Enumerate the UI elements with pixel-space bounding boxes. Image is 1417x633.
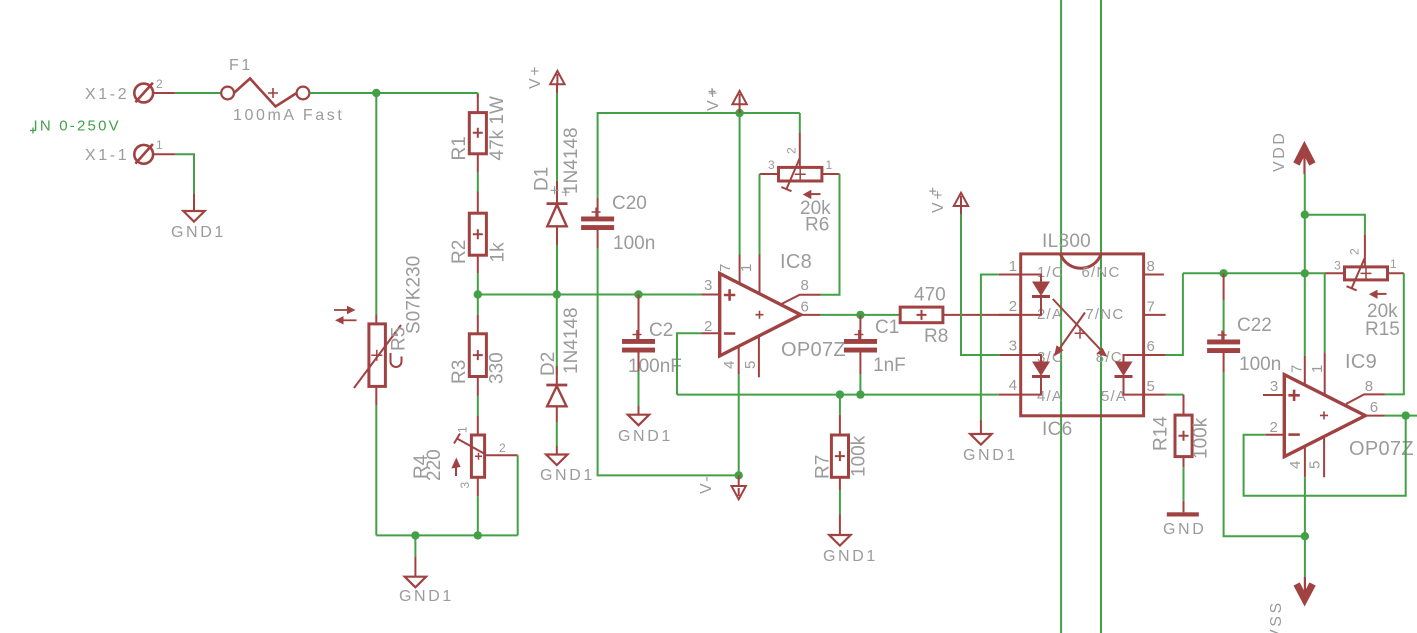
svg-text:1: 1 bbox=[156, 138, 163, 152]
svg-text:100n: 100n bbox=[613, 233, 655, 254]
wire: R15 pin3 down to IC9 pin1 bbox=[1324, 273, 1326, 352]
ground GND1 (under X1-1) bbox=[171, 194, 226, 241]
wire: bus down to R3 bbox=[477, 295, 479, 315]
IL300 pin 1 bbox=[999, 274, 1021, 276]
wire: IL300 pin5 to R14 top bbox=[1166, 394, 1184, 396]
svg-text:5: 5 bbox=[1147, 378, 1157, 395]
svg-text:R1: R1 bbox=[449, 136, 470, 160]
IL300 gate labels bbox=[1037, 264, 1127, 405]
svg-text:3: 3 bbox=[1270, 378, 1280, 395]
junction: top rail / R5 branch bbox=[372, 89, 380, 97]
svg-text:3: 3 bbox=[458, 481, 472, 488]
wire: R14 to GND bbox=[1183, 467, 1185, 501]
ground GND1 (LED cathode) bbox=[963, 420, 1018, 464]
svg-text:GND1: GND1 bbox=[399, 588, 454, 605]
svg-text:1: 1 bbox=[456, 426, 470, 433]
svg-text:6: 6 bbox=[1370, 399, 1380, 416]
net label IN 0-250V bbox=[30, 118, 121, 135]
svg-text:6/NC: 6/NC bbox=[1082, 264, 1121, 281]
svg-text:C20: C20 bbox=[612, 193, 647, 214]
wire: R6 pin3 down to IC8 pin1 bbox=[759, 174, 761, 255]
junction: rail at C22 bbox=[1219, 269, 1227, 277]
svg-text:V+: V+ bbox=[705, 86, 722, 111]
wire: X1-1 down to GND1 bbox=[175, 154, 194, 193]
wire: feedback loop to IC9 -input bbox=[1244, 416, 1406, 496]
svg-text:4: 4 bbox=[1287, 459, 1304, 469]
wire: D2 to GND1 bbox=[556, 422, 558, 446]
svg-text:IC6: IC6 bbox=[1042, 419, 1072, 440]
wire: bus down to D2 bbox=[556, 295, 558, 375]
wire: VSS node down to VSS symbol bbox=[1304, 536, 1306, 577]
svg-text:2: 2 bbox=[1348, 248, 1362, 255]
svg-text:5: 5 bbox=[1307, 459, 1324, 469]
wire: D1 to bus bbox=[556, 245, 558, 295]
svg-text:GND1: GND1 bbox=[823, 548, 878, 565]
wire: C20 top rail (V+ rail to IC8) bbox=[598, 113, 800, 198]
IL300 pin 8 bbox=[1144, 274, 1164, 276]
IL300 pin 4 bbox=[999, 394, 1021, 396]
IL300 pin 6 bbox=[1144, 354, 1166, 356]
ground GND1 (bottom left) bbox=[399, 557, 454, 605]
svg-text:1nF: 1nF bbox=[873, 355, 906, 376]
terminal X1-1 bbox=[85, 138, 175, 164]
wire: X1-2 to fuse F1 bbox=[175, 92, 221, 94]
svg-text:7: 7 bbox=[1147, 299, 1157, 316]
wire: top rail corner down to R1 bbox=[477, 93, 479, 97]
junction: output at C1 bbox=[856, 311, 864, 319]
supply V+ (IL300 pin3) bbox=[929, 188, 968, 214]
svg-text:6: 6 bbox=[801, 299, 811, 316]
junction: low rail at C1 bbox=[856, 390, 864, 398]
diode D1 1N4148 bbox=[532, 127, 583, 245]
supply V- (below IC8) bbox=[698, 474, 746, 500]
wire: IC8 output to R8 bbox=[821, 314, 901, 316]
wire: R7 to GND1 bbox=[839, 490, 841, 514]
trimmer R15 20k bbox=[1325, 234, 1404, 340]
svg-text:8: 8 bbox=[1365, 378, 1375, 395]
junction: bus at C2 bbox=[634, 290, 642, 298]
supply V+ (IC8 pin 7) bbox=[705, 86, 747, 113]
svg-text:VSS: VSS bbox=[1268, 600, 1285, 633]
capacitor C1 1nF bbox=[844, 315, 906, 376]
svg-text:5: 5 bbox=[742, 359, 759, 369]
svg-text:R2: R2 bbox=[449, 240, 470, 264]
wire: IC9 pin4 down to VSS node bbox=[1304, 477, 1306, 536]
svg-text:100n: 100n bbox=[1239, 354, 1281, 375]
wire: rail down to IC9 pin7 bbox=[1304, 273, 1306, 355]
resistor R3 330 bbox=[449, 315, 508, 396]
svg-text:220: 220 bbox=[424, 449, 445, 481]
svg-text:100k: 100k bbox=[849, 435, 870, 477]
svg-text:C1: C1 bbox=[875, 317, 899, 338]
svg-text:1N4148: 1N4148 bbox=[561, 307, 582, 374]
IL300 pin 5 bbox=[1144, 394, 1166, 396]
ground GND1 (under C2) bbox=[618, 406, 673, 445]
junction: VSS node bbox=[1301, 532, 1309, 540]
svg-text:X1-2: X1-2 bbox=[85, 86, 129, 103]
svg-text:IC9: IC9 bbox=[1345, 351, 1377, 373]
svg-text:7/NC: 7/NC bbox=[1085, 306, 1124, 323]
junction: bus at R2/R3 bbox=[474, 290, 482, 298]
svg-text:2: 2 bbox=[785, 147, 799, 154]
wire: R5 branch vertical bbox=[375, 93, 377, 315]
svg-text:2: 2 bbox=[704, 318, 714, 335]
svg-text:1: 1 bbox=[1009, 258, 1019, 275]
svg-text:GND1: GND1 bbox=[618, 428, 673, 445]
wire: IC8 -input loop bbox=[677, 333, 701, 394]
IL300 internal photodiode right bbox=[1115, 355, 1144, 395]
junction: bottom rail R4 pin3 bbox=[474, 531, 482, 539]
svg-text:VDD: VDD bbox=[1271, 130, 1288, 172]
svg-text:1N4148: 1N4148 bbox=[561, 127, 582, 194]
svg-text:R15: R15 bbox=[1365, 319, 1400, 340]
wire: long vertical net crossing schematic left bbox=[1060, 0, 1062, 633]
IL300 light arrow to left photodiode bbox=[1054, 313, 1085, 357]
IL300 pin numbers bbox=[1009, 258, 1156, 395]
junction: rail at VDD stem bbox=[1301, 269, 1309, 277]
wire: VDD branch to R15 pin2 bbox=[1305, 215, 1365, 235]
fuse F1 100mA Fast bbox=[221, 57, 344, 124]
svg-text:100nF: 100nF bbox=[628, 356, 682, 377]
varistor R5 S07K230 bbox=[334, 256, 425, 406]
svg-text:4: 4 bbox=[1009, 377, 1019, 394]
svg-text:8: 8 bbox=[801, 277, 811, 294]
ground GND (plain) bbox=[1163, 501, 1206, 538]
capacitor C22 100n bbox=[1207, 273, 1281, 375]
svg-text:2: 2 bbox=[499, 441, 506, 455]
trimmer R4 220 bbox=[411, 416, 518, 496]
supply VDD bbox=[1271, 130, 1312, 174]
svg-text:8: 8 bbox=[1147, 258, 1157, 275]
svg-text:3: 3 bbox=[1009, 338, 1019, 355]
svg-text:IL300: IL300 bbox=[1042, 231, 1091, 252]
supply VSS bbox=[1268, 577, 1313, 633]
svg-text:4: 4 bbox=[721, 359, 738, 369]
IL300 internal LED bbox=[1021, 275, 1050, 315]
svg-text:D1: D1 bbox=[532, 167, 553, 191]
wire: R3 to R4 bbox=[477, 396, 479, 417]
ground GND1 (under R7) bbox=[823, 514, 878, 565]
svg-text:2: 2 bbox=[1269, 419, 1279, 436]
supply V+ (above D1) bbox=[527, 64, 565, 94]
junction: V- node at IC8 pin4 bbox=[735, 471, 743, 479]
svg-text:F1: F1 bbox=[229, 57, 253, 74]
wire: secondary rail (pin6/C22/VDD/R15) bbox=[1183, 272, 1325, 274]
svg-text:2: 2 bbox=[1009, 298, 1019, 315]
resistor R1 47k 1W bbox=[449, 94, 508, 173]
svg-text:7: 7 bbox=[1289, 363, 1306, 373]
svg-text:47k 1W: 47k 1W bbox=[487, 96, 508, 160]
svg-text:OP07Z: OP07Z bbox=[781, 339, 846, 361]
optocoupler IC6 IL300 bbox=[1021, 231, 1144, 440]
resistor R7 100k bbox=[813, 395, 870, 490]
svg-text:3: 3 bbox=[704, 277, 714, 294]
svg-text:X1-1: X1-1 bbox=[85, 147, 129, 164]
wire: R4 pin3 to bottom rail bbox=[477, 496, 479, 535]
svg-text:C22: C22 bbox=[1237, 315, 1272, 336]
svg-text:R3: R3 bbox=[449, 360, 470, 384]
svg-text:IN 0-250V: IN 0-250V bbox=[34, 118, 121, 135]
capacitor C2 100nF bbox=[622, 295, 682, 378]
svg-text:GND1: GND1 bbox=[963, 447, 1018, 464]
wire: V+ junction down to IC8 pin7 bbox=[739, 113, 741, 255]
wire: V+ down to IL300 pin3 bbox=[961, 214, 1000, 355]
trimmer R6 20k bbox=[760, 133, 840, 236]
wire: R2 to node bus bbox=[477, 273, 479, 295]
ground GND1 (under D2) bbox=[540, 446, 595, 484]
junction: V+ at IC8 pin7 bbox=[735, 109, 743, 117]
svg-text:D2: D2 bbox=[538, 352, 559, 376]
svg-text:7: 7 bbox=[717, 262, 734, 272]
wire: VDD stem down to rail bbox=[1304, 174, 1306, 273]
svg-text:1: 1 bbox=[826, 158, 833, 172]
svg-text:IC8: IC8 bbox=[780, 251, 812, 273]
svg-text:GND1: GND1 bbox=[171, 224, 226, 241]
op-amp IC8 OP07Z bbox=[701, 251, 846, 377]
svg-text:V-: V- bbox=[698, 474, 715, 494]
svg-text:6: 6 bbox=[1147, 338, 1157, 355]
svg-text:100mA Fast: 100mA Fast bbox=[233, 107, 344, 124]
wire: R5 down to bottom rail bbox=[375, 405, 377, 535]
op-amp IC9 OP07Z bbox=[1263, 351, 1414, 477]
svg-text:GND1: GND1 bbox=[540, 467, 595, 484]
svg-text:R14: R14 bbox=[1151, 416, 1172, 451]
wire: C1 bottom to low rail bbox=[859, 374, 861, 394]
svg-text:S07K230: S07K230 bbox=[404, 256, 425, 334]
wire: IL300 pin6 up to secondary rail bbox=[1166, 273, 1183, 355]
wire: node bus (divider tap) to IC8 +input bbox=[478, 294, 701, 296]
svg-text:R7: R7 bbox=[813, 455, 834, 479]
svg-text:1: 1 bbox=[738, 262, 755, 272]
svg-text:470: 470 bbox=[914, 285, 946, 306]
diode D2 1N4148 bbox=[538, 307, 582, 422]
wire: fuse to node A (top rail) bbox=[309, 92, 477, 94]
wire: R6 pin1 down to IC8 pin8 bbox=[821, 174, 840, 295]
wire: IC8 pin4 down to V- node bbox=[738, 374, 740, 475]
svg-text:R6: R6 bbox=[805, 215, 829, 236]
svg-text:OP07Z: OP07Z bbox=[1349, 438, 1414, 460]
wire: bottom rail to GND1 bbox=[414, 535, 416, 557]
IL300 pin 3 bbox=[1000, 354, 1021, 356]
wire: feedback/low rail to IL300 pin4 bbox=[677, 394, 999, 396]
wire: IC9 output to edge bbox=[1385, 415, 1417, 417]
svg-text:GND: GND bbox=[1163, 521, 1206, 538]
junction: bottom rail GND tap bbox=[411, 531, 419, 539]
svg-text:1: 1 bbox=[1309, 363, 1326, 373]
resistor R2 1k bbox=[449, 192, 509, 274]
terminal X1-2 bbox=[85, 77, 175, 103]
wire: R1 to R2 bbox=[477, 173, 479, 192]
junction: output feedback tap bbox=[1402, 411, 1410, 419]
capacitor C20 100n bbox=[581, 193, 655, 254]
resistor R14 100k bbox=[1151, 395, 1212, 468]
resistor R8 470 bbox=[900, 285, 1021, 348]
svg-text:R8: R8 bbox=[924, 326, 948, 347]
wire: C20 bottom down to V- rail bbox=[598, 248, 739, 475]
IL300 pin 2 bbox=[999, 314, 1021, 316]
wire: V+ to D1 bbox=[556, 93, 558, 180]
wire: C22 bottom to VSS rail bbox=[1224, 372, 1305, 536]
wire: R4 wiper down to bottom rail bbox=[517, 455, 519, 535]
junction: low rail at R7 bbox=[836, 390, 844, 398]
svg-text:1: 1 bbox=[1390, 257, 1397, 271]
wire: R15 pin1 down to IC9 pin8 bbox=[1385, 273, 1404, 394]
svg-text:2: 2 bbox=[156, 77, 163, 91]
IL300 pin 7 bbox=[1144, 314, 1166, 316]
svg-text:C2: C2 bbox=[649, 320, 673, 341]
svg-text:3: 3 bbox=[768, 158, 775, 172]
IL300 light arrow to right photodiode bbox=[1053, 299, 1108, 357]
svg-text:100k: 100k bbox=[1191, 417, 1212, 459]
junction: VDD branch to R15 pin2 bbox=[1301, 211, 1309, 219]
IL300 internal photodiode left bbox=[1021, 355, 1050, 395]
svg-text:330: 330 bbox=[487, 352, 508, 384]
wire: V+ junction to R6 pin2 bbox=[799, 113, 801, 133]
svg-text:1k: 1k bbox=[488, 242, 509, 263]
svg-text:3: 3 bbox=[1334, 259, 1341, 273]
wire: IL300 pin1 to GND1 bbox=[981, 275, 999, 421]
wire: bottom rail bbox=[376, 534, 517, 536]
wire: long vertical net crossing schematic right bbox=[1100, 0, 1102, 633]
svg-text:V+: V+ bbox=[527, 64, 544, 89]
wire: C2 to GND1 bbox=[638, 371, 640, 406]
junction: bus at D1/D2 bbox=[553, 290, 561, 298]
